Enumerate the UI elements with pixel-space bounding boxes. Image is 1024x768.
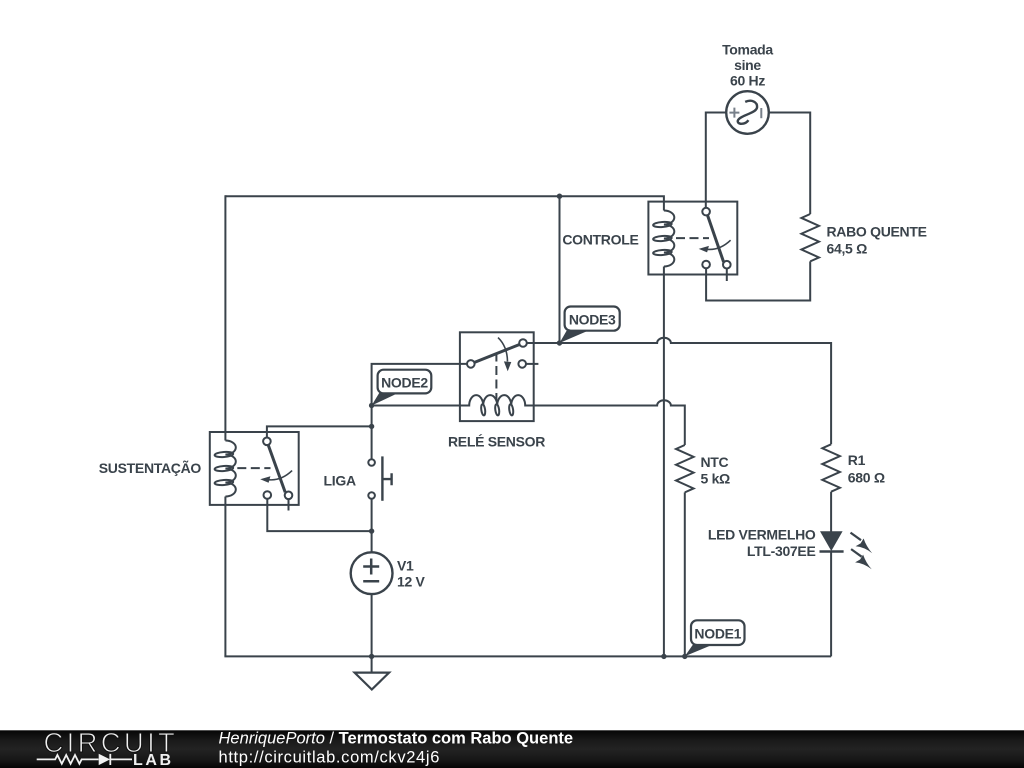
- wire NODE2 vertical to RELE SENSOR switch pin and down to LIGA: [372, 364, 468, 459]
- svg-text:LED VERMELHO: LED VERMELHO: [708, 527, 816, 543]
- AC source minus terminal mark: [760, 108, 762, 118]
- relay CONTROLE box: [648, 202, 737, 275]
- resistor RABO QUENTE 64,5 ohm: [801, 214, 819, 261]
- wire NODE2 to RELE SENSOR coil left: [372, 405, 460, 407]
- relay SUSTENTACAO switch blade: [268, 445, 285, 493]
- svg-text:R1: R1: [848, 452, 866, 468]
- wire V1 bottom to ground rail: [371, 594, 373, 656]
- relay RELE SENSOR switch blade: [474, 345, 519, 363]
- pushbutton LIGA actuator: [381, 456, 383, 500]
- svg-text:RABO QUENTE: RABO QUENTE: [827, 224, 927, 240]
- relay CONTROLE coil: [664, 211, 674, 267]
- relay CONTROLE switch top pin: [702, 208, 710, 216]
- pushbutton LIGA top contact: [368, 459, 375, 466]
- relay RELE SENSOR arrow: [498, 338, 508, 362]
- relay RELE SENSOR coil: [460, 395, 534, 405]
- svg-text:NTC: NTC: [701, 454, 729, 470]
- relay CONTROLE arrow: [707, 240, 731, 249]
- svg-text:LAB: LAB: [133, 752, 174, 768]
- wire top rail from left loop to CONTROLE coil: [225, 196, 664, 210]
- node label NODE2: [372, 370, 432, 406]
- wire Tomada left terminal to CONTROLE switch top pin: [706, 113, 726, 209]
- node label NODE1: [685, 620, 745, 656]
- wire SUSTENTACAO switch top pin up to NODE2 net: [267, 426, 372, 437]
- svg-text:NODE2: NODE2: [381, 374, 428, 390]
- wire LED cathode to NODE1 rail: [830, 552, 832, 657]
- junction V1 top: [369, 528, 374, 533]
- V1 minus symbol: [363, 580, 379, 583]
- AC source Tomada sine 60 Hz body: [726, 91, 769, 134]
- relay RELE SENSOR switch left pin: [467, 360, 475, 368]
- relay CONTROLE dashed link: [676, 237, 709, 239]
- resistor R1 680 ohm: [822, 444, 840, 491]
- relay CONTROLE switch bottom-right pin: [723, 261, 731, 269]
- wire NTC bottom lead to NODE1 rail: [684, 492, 686, 656]
- LED VERMELHO arrow 1: [851, 533, 862, 541]
- svg-text:64,5 Ω: 64,5 Ω: [827, 240, 868, 256]
- relay CONTROLE unconnected stub: [726, 268, 728, 281]
- wire NODE3 branch vertical: [559, 196, 561, 343]
- wire left rail down to SUSTENTACAO coil: [224, 195, 226, 440]
- relay SUSTENTACAO arrow: [268, 471, 292, 480]
- relay RELE SENSOR box: [460, 332, 534, 421]
- relay SUSTENTACAO switch bottom-left pin: [264, 491, 272, 499]
- svg-text:RELÉ SENSOR: RELÉ SENSOR: [448, 433, 545, 449]
- relay SUSTENTACAO switch bottom-right pin: [285, 492, 293, 500]
- ground symbol: [371, 656, 373, 672]
- svg-text:LIGA: LIGA: [324, 473, 356, 489]
- svg-text:680 Ω: 680 Ω: [848, 470, 885, 486]
- wire NODE3 horizontal with hop to R1: [527, 338, 832, 445]
- node label NODE3: [560, 307, 620, 344]
- LED arrowhead 1: [856, 539, 873, 554]
- junction NODE1 rail at CONTROLE coil: [661, 654, 666, 659]
- relay RELE SENSOR switch top-right pin: [519, 339, 527, 347]
- wire Tomada right terminal to RABO QUENTE top: [769, 113, 810, 215]
- wire bottom rail NODE1 net: [224, 655, 831, 657]
- resistor NTC 5 kohm: [676, 445, 694, 492]
- wire SUSTENTACAO coil bottom to bottom rail: [224, 497, 226, 657]
- voltage source V1 body: [351, 552, 393, 594]
- LED VERMELHO body triangle: [820, 531, 843, 551]
- junction NODE3: [557, 340, 562, 345]
- relay SUSTENTACAO unconnected stub: [288, 499, 290, 511]
- junction top rail NODE3 branch: [557, 194, 562, 199]
- svg-text:12 V: 12 V: [397, 574, 426, 590]
- LED VERMELHO arrow 2: [851, 549, 862, 557]
- wire CONTROLE coil bottom down to NODE1 rail: [663, 267, 665, 657]
- relay RELE SENSOR switch mid-right pin: [518, 360, 526, 368]
- svg-text:http://circuitlab.com/ckv24j6: http://circuitlab.com/ckv24j6: [219, 749, 441, 767]
- wire LIGA bottom to V1 junction: [371, 499, 373, 552]
- pushbutton LIGA bottom contact: [368, 492, 375, 499]
- wire RELE SENSOR coil right with hop to NTC: [534, 400, 685, 445]
- relay CONTROLE switch blade: [707, 215, 723, 262]
- relay SUSTENTACAO dashed link: [237, 467, 270, 469]
- footer logo schematic resistor and diode: [37, 754, 132, 765]
- wire SUSTENTACAO switch pin down to V1 top junction: [267, 499, 371, 532]
- svg-text:CONTROLE: CONTROLE: [562, 231, 638, 247]
- svg-text:5 kΩ: 5 kΩ: [701, 470, 731, 486]
- svg-text:SUSTENTAÇÃO: SUSTENTAÇÃO: [99, 459, 202, 476]
- svg-text:HenriquePorto / Termostato com: HenriquePorto / Termostato com Rabo Quen…: [219, 730, 574, 748]
- AC source sine symbol: [738, 101, 757, 124]
- V1 plus symbol: [363, 559, 379, 575]
- svg-text:60 Hz: 60 Hz: [730, 72, 765, 88]
- LED VERMELHO cathode bar: [820, 550, 844, 553]
- junction NODE2: [369, 403, 374, 408]
- LED arrowhead 2: [855, 555, 872, 570]
- svg-text:V1: V1: [397, 557, 414, 573]
- relay SUSTENTACAO switch top pin: [263, 438, 271, 446]
- svg-text:sine: sine: [734, 57, 761, 73]
- svg-text:NODE1: NODE1: [694, 626, 741, 642]
- junction ground rail at V1: [369, 654, 374, 659]
- footer bar: [0, 730, 1024, 768]
- relay RELE SENSOR dashed link: [495, 353, 497, 400]
- relay RELE SENSOR unconnected stub: [526, 363, 539, 365]
- relay SUSTENTACAO box: [210, 432, 299, 505]
- junction NODE1: [682, 654, 687, 659]
- wire R1 bottom lead to LED: [830, 492, 832, 532]
- svg-text:LTL-307EE: LTL-307EE: [747, 543, 816, 559]
- AC source plus terminal mark: [729, 108, 761, 119]
- svg-text:Tomada: Tomada: [722, 42, 773, 58]
- relay CONTROLE switch bottom-left pin: [702, 261, 710, 269]
- wire RABO QUENTE bottom to CONTROLE switch pin: [706, 261, 810, 300]
- junction SUSTENTACAO top pin net: [369, 424, 374, 429]
- relay SUSTENTACAO coil: [225, 441, 235, 497]
- svg-text:NODE3: NODE3: [569, 312, 616, 328]
